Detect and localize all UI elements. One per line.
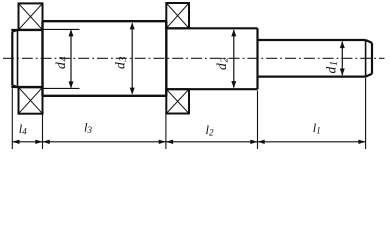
shaft section l1 (right, with chamfered end)	[258, 40, 373, 77]
bearing BL square	[19, 87, 43, 113]
d4 dimension	[44, 29, 80, 88]
d1 dimension	[340, 41, 345, 75]
bottom dimension line	[12, 141, 365, 143]
shaft section l2	[166, 28, 257, 89]
shaft section l4 (left flange / bearing seat)	[11, 30, 42, 87]
d2 dimension	[231, 29, 236, 88]
d3 dimension	[130, 22, 135, 94]
bottom extension lines	[12, 78, 365, 150]
centerline	[3, 57, 385, 59]
shaft section l3 (large middle)	[43, 21, 167, 96]
chamfer line of l4	[17, 30, 19, 87]
bearing BR square	[166, 89, 189, 113]
bearing TL square	[19, 3, 43, 29]
bearing TR square	[166, 3, 189, 28]
chamfer line of l1	[365, 40, 367, 77]
arrowheads on bottom dimension line	[12, 140, 365, 144]
